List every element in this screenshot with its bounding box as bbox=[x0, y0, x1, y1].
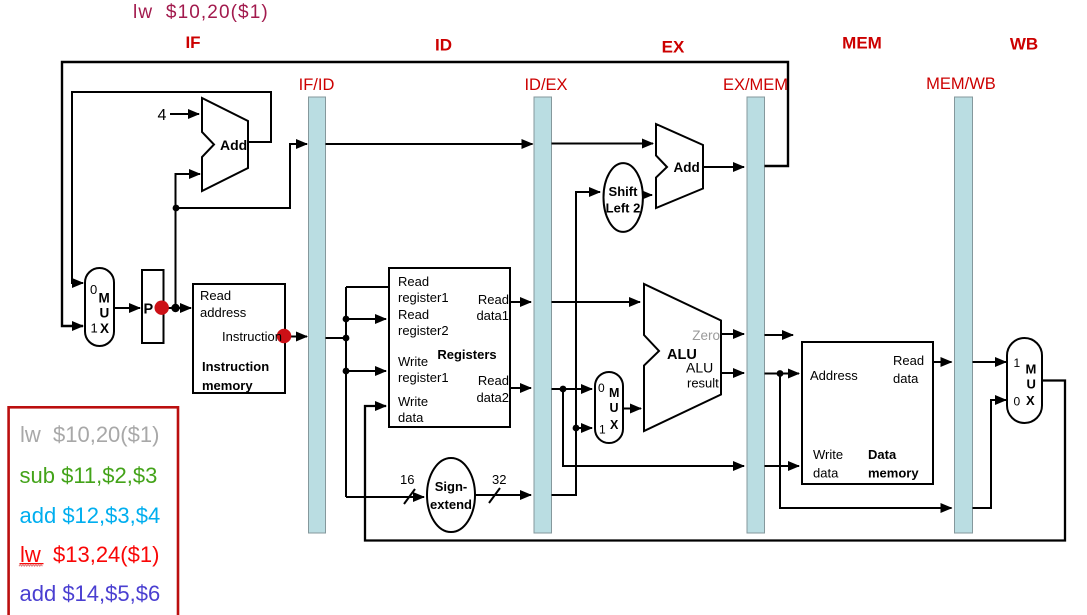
svg-text:add $14,$5,$6: add $14,$5,$6 bbox=[20, 581, 161, 606]
svg-text:Write: Write bbox=[398, 354, 428, 369]
svg-text:data: data bbox=[893, 371, 919, 386]
svg-text:U: U bbox=[610, 401, 619, 415]
svg-text:EX: EX bbox=[662, 38, 685, 57]
svg-text:MEM/WB: MEM/WB bbox=[926, 75, 996, 93]
svg-text:M: M bbox=[1026, 362, 1037, 377]
svg-text:X: X bbox=[100, 321, 109, 336]
svg-text:Address: Address bbox=[810, 368, 858, 383]
svg-text:M: M bbox=[609, 386, 619, 400]
svg-text:data2: data2 bbox=[476, 390, 509, 405]
svg-text:1: 1 bbox=[1014, 356, 1021, 370]
svg-text:data: data bbox=[398, 410, 424, 425]
svg-text:Read: Read bbox=[893, 353, 924, 368]
svg-text:Read: Read bbox=[200, 288, 231, 303]
svg-text:register1: register1 bbox=[398, 290, 449, 305]
svg-text:data: data bbox=[813, 466, 839, 481]
svg-text:sub $11,$2,$3: sub $11,$2,$3 bbox=[20, 463, 158, 488]
svg-text:U: U bbox=[1027, 377, 1036, 392]
svg-text:register2: register2 bbox=[398, 323, 449, 338]
svg-text:Instruction: Instruction bbox=[202, 359, 269, 374]
svg-text:ID: ID bbox=[435, 36, 452, 55]
svg-text:Read: Read bbox=[398, 307, 429, 322]
svg-text:Registers: Registers bbox=[437, 347, 496, 362]
svg-text:1: 1 bbox=[91, 321, 98, 336]
svg-text:Read: Read bbox=[478, 373, 509, 388]
svg-text:16: 16 bbox=[400, 472, 414, 487]
svg-text:IF/ID: IF/ID bbox=[299, 76, 335, 94]
svg-text:extend: extend bbox=[430, 497, 472, 512]
svg-text:memory: memory bbox=[868, 466, 919, 481]
svg-text:U: U bbox=[100, 306, 110, 321]
svg-text:0: 0 bbox=[1014, 395, 1021, 409]
svg-text:Data: Data bbox=[868, 447, 897, 462]
svg-text:Write: Write bbox=[813, 447, 843, 462]
svg-text:Shift: Shift bbox=[609, 184, 639, 199]
svg-text:lw $10,20($1): lw $10,20($1) bbox=[133, 2, 269, 23]
svg-text:Zero: Zero bbox=[692, 328, 720, 343]
svg-text:X: X bbox=[1026, 393, 1035, 408]
svg-text:Left 2: Left 2 bbox=[606, 201, 641, 216]
svg-text:register1: register1 bbox=[398, 370, 449, 385]
svg-text:32: 32 bbox=[492, 472, 506, 487]
svg-text:Instruction: Instruction bbox=[222, 329, 282, 344]
svg-text:MEM: MEM bbox=[842, 34, 882, 53]
svg-text:result: result bbox=[687, 376, 719, 391]
svg-text:Read: Read bbox=[398, 274, 429, 289]
svg-text:4: 4 bbox=[158, 107, 167, 124]
svg-text:WB: WB bbox=[1010, 35, 1038, 54]
svg-text:memory: memory bbox=[202, 378, 253, 393]
svg-text:address: address bbox=[200, 305, 247, 320]
svg-text:Add: Add bbox=[220, 137, 247, 153]
svg-text:X: X bbox=[610, 418, 619, 432]
svg-text:ALU: ALU bbox=[686, 360, 713, 376]
svg-text:IF: IF bbox=[185, 33, 200, 52]
svg-text:add $12,$3,$4: add $12,$3,$4 bbox=[20, 503, 161, 528]
svg-text:ID/EX: ID/EX bbox=[524, 76, 567, 94]
svg-text:M: M bbox=[99, 291, 110, 306]
svg-text:Write: Write bbox=[398, 394, 428, 409]
svg-text:data1: data1 bbox=[476, 308, 509, 323]
svg-text:lw $10,20($1): lw $10,20($1) bbox=[20, 422, 159, 447]
svg-text:1: 1 bbox=[599, 423, 606, 437]
svg-text:EX/MEM: EX/MEM bbox=[723, 76, 788, 94]
svg-text:0: 0 bbox=[90, 282, 97, 297]
svg-text:Read: Read bbox=[478, 292, 509, 307]
svg-text:Add: Add bbox=[674, 160, 700, 175]
svg-text:Sign-: Sign- bbox=[435, 479, 468, 494]
svg-text:0: 0 bbox=[598, 381, 605, 395]
svg-text:P: P bbox=[144, 302, 154, 318]
